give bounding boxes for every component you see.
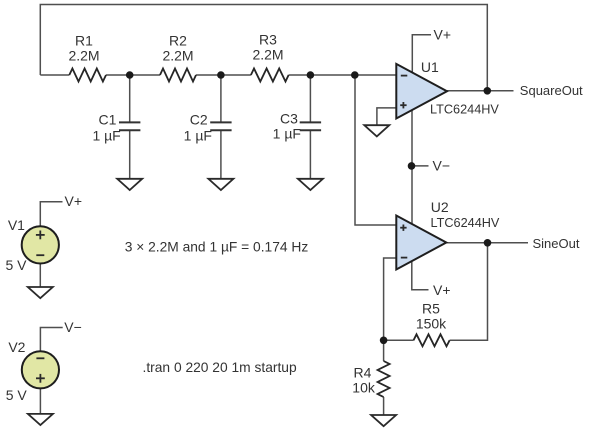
svg-text:V+: V+ xyxy=(65,193,83,209)
svg-text:5 V: 5 V xyxy=(6,387,28,403)
svg-text:C3: C3 xyxy=(280,110,298,126)
svg-text:V1: V1 xyxy=(8,217,25,233)
svg-text:2.2M: 2.2M xyxy=(252,46,283,62)
svg-text:R3: R3 xyxy=(259,32,277,48)
svg-text:R4: R4 xyxy=(354,364,372,380)
svg-text:C1: C1 xyxy=(99,111,117,127)
svg-text:2.2M: 2.2M xyxy=(162,47,193,63)
svg-text:3 × 2.2M and 1 µF = 0.174 Hz: 3 × 2.2M and 1 µF = 0.174 Hz xyxy=(125,239,309,254)
svg-text:V−: V− xyxy=(64,319,82,335)
svg-text:150k: 150k xyxy=(416,316,447,332)
svg-text:R2: R2 xyxy=(169,32,187,48)
svg-text:SquareOut: SquareOut xyxy=(520,83,583,98)
svg-text:R1: R1 xyxy=(75,32,93,48)
svg-text:LTC6244HV: LTC6244HV xyxy=(430,102,499,116)
svg-text:2.2M: 2.2M xyxy=(68,47,99,63)
svg-text:C2: C2 xyxy=(190,111,208,127)
svg-text:5 V: 5 V xyxy=(5,257,27,273)
svg-text:LTC6244HV: LTC6244HV xyxy=(431,216,500,230)
svg-text:1 µF: 1 µF xyxy=(92,127,120,143)
svg-text:V+: V+ xyxy=(433,282,451,298)
svg-text:1 µF: 1 µF xyxy=(184,127,212,143)
svg-text:1 µF: 1 µF xyxy=(273,125,301,141)
svg-text:V+: V+ xyxy=(434,27,452,43)
svg-text:U1: U1 xyxy=(421,59,439,75)
svg-text:10k: 10k xyxy=(352,379,376,395)
svg-text:.tran 0 220 20 1m startup: .tran 0 220 20 1m startup xyxy=(143,360,297,375)
svg-text:R5: R5 xyxy=(422,301,440,317)
svg-text:SineOut: SineOut xyxy=(533,236,580,251)
svg-text:V2: V2 xyxy=(8,339,25,355)
svg-text:U2: U2 xyxy=(431,199,449,215)
svg-text:V−: V− xyxy=(433,158,451,174)
